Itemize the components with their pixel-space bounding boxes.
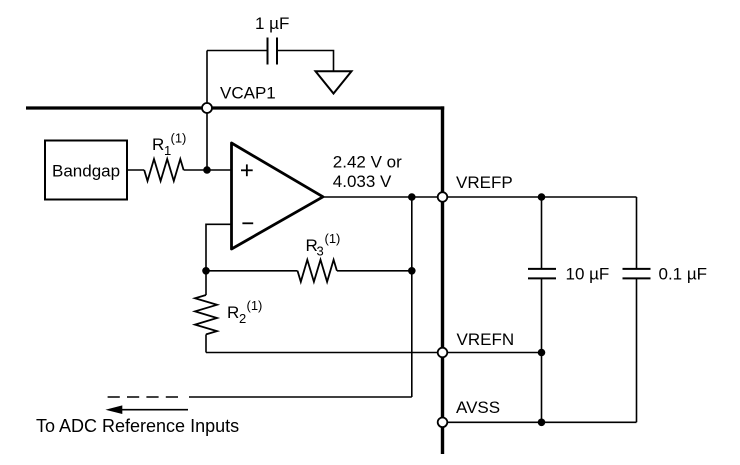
wire: dashed continuation to ADC reference inputs [106,396,178,398]
svg-text:R: R [152,135,164,154]
svg-text:2: 2 [239,311,246,326]
node: junction dot feedback left [202,267,210,275]
svg-text:(1): (1) [247,298,263,313]
wire: output sense vertical line down [411,197,413,397]
svg-text:R: R [227,303,239,322]
op-amp plus input symbol [241,164,253,176]
capacitor C_bypass 1uF plates [268,38,278,65]
svg-text:(1): (1) [325,231,341,246]
capacitor C 0.1uF [623,197,651,422]
svg-text:10 µF: 10 µF [566,265,610,284]
wire: AVSS external run to caps [448,421,637,423]
node: VREFN open-circle pin [438,348,448,358]
label: R1 with superscript note (1) [152,131,186,159]
node: junction dot R3 right on sense line [408,267,416,275]
svg-text:1 µF: 1 µF [255,14,289,33]
node: junction dot R1 / VCAP1 lead [203,166,211,174]
svg-text:3: 3 [317,244,324,259]
resistor R1 zigzag [144,159,183,181]
wire: R3 to output sense line [337,270,412,272]
svg-text:2.42 V or: 2.42 V or [333,152,402,171]
op-amp U1 triangle [232,143,324,249]
node: junction dot output/R3 right [408,193,416,201]
wire: bypass cap left segment [207,50,267,52]
wire: Bandgap output to R1 [127,169,144,171]
arrow: to ADC reference inputs [105,405,188,414]
svg-text:(1): (1) [171,131,187,146]
wire: VREFP external run to decoupling caps [448,196,637,198]
resistor R2 vertical zigzag [195,271,217,353]
node: junction dot VREFN/10uF [538,349,546,357]
resistor R3 zigzag [298,260,337,282]
node: VREFP open-circle pin [438,192,448,202]
wire: R2 bottom to VREFN pin [206,352,438,354]
svg-text:0.1 µF: 0.1 µF [659,265,708,284]
wire: thick horizontal supply rail [26,106,444,109]
label: R2 with superscript note (1) [227,298,262,326]
capacitor C 10uF [528,197,556,422]
wire: op-amp output to VREFP pin [324,196,438,198]
svg-text:Bandgap: Bandgap [52,162,120,181]
ground: analog ground triangle [316,71,352,93]
svg-text:AVSS: AVSS [456,398,500,417]
svg-text:To ADC Reference Inputs: To ADC Reference Inputs [36,416,239,436]
svg-text:VREFP: VREFP [456,173,513,192]
wire: sense line horizontal run to ADC reference [189,396,412,398]
op-amp minus input symbol [242,222,253,224]
node: junction dot AVSS/10uF leg [538,419,546,427]
svg-text:4.033 V: 4.033 V [333,172,392,191]
wire: VCAP1 vertical lead from bypass cap down to R1/op-amp junction [206,51,208,171]
wire: R1 to op-amp non-inverting input [184,169,232,171]
wire: VREFN external run to 10uF cap [448,352,542,354]
node: junction dot VREFP/10uF [538,193,546,201]
wire: thick vertical device boundary bus [441,106,444,454]
svg-text:VREFN: VREFN [457,330,515,349]
label: R3 with superscript note (1) [306,231,341,259]
node: VCAP1 open-circle pin on rail [202,103,212,113]
block: Bandgap box [45,141,127,200]
node: AVSS open-circle pin [438,418,448,428]
wire: bypass cap right segment to ground [278,51,334,72]
svg-text:VCAP1: VCAP1 [220,84,276,103]
label: output voltage 2.42 V or 4.033 V [333,152,402,190]
wire: op-amp inverting input down to feedback node [206,224,232,270]
wire: feedback node horizontal run to R3 [206,270,298,272]
